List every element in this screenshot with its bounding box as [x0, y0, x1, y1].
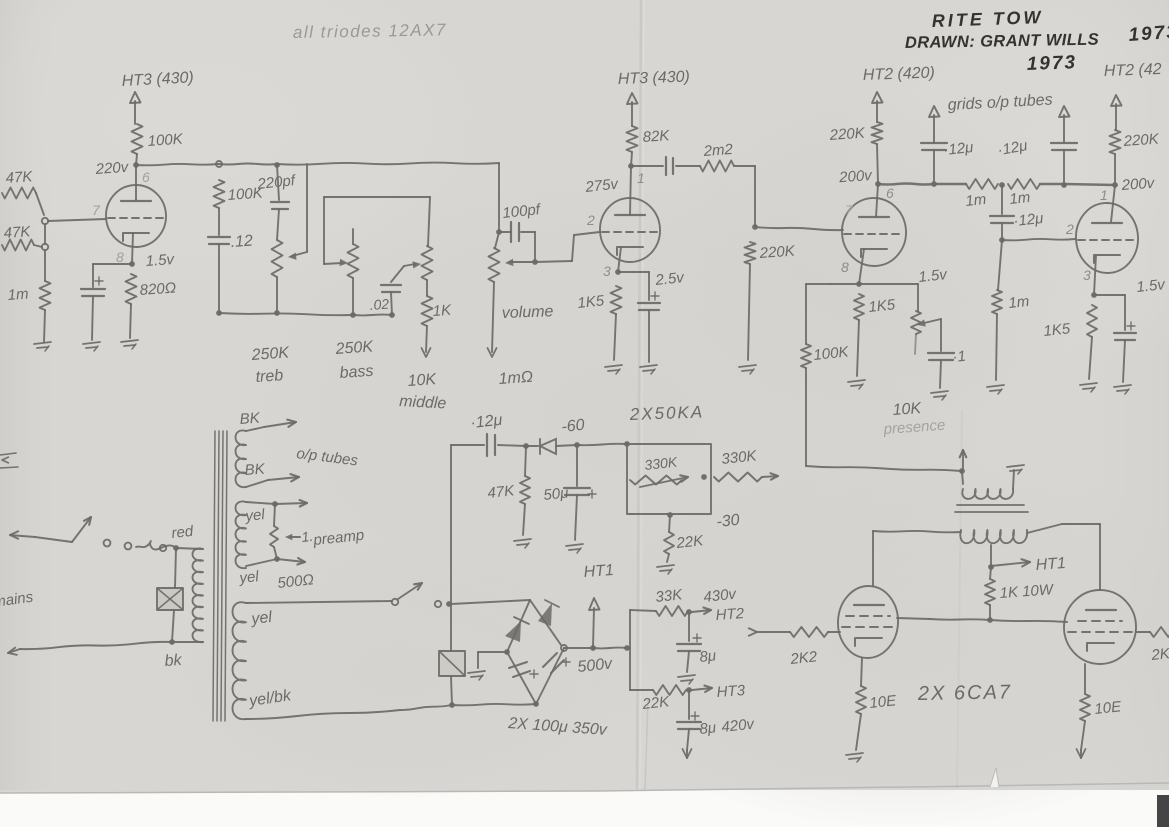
svg-text:100K: 100K — [147, 131, 184, 150]
svg-text:.02: .02 — [369, 296, 390, 313]
svg-text:HT1: HT1 — [1035, 555, 1066, 574]
svg-text:HT3: HT3 — [716, 682, 746, 701]
svg-text:·12μ: ·12μ — [1013, 210, 1045, 230]
svg-text:1K5: 1K5 — [1043, 320, 1072, 340]
svg-text:33K: 33K — [655, 586, 684, 606]
svg-text:BK: BK — [244, 461, 266, 479]
svg-text:430v: 430v — [703, 586, 739, 606]
svg-text:3: 3 — [603, 263, 611, 279]
svg-text:2K2: 2K2 — [789, 648, 819, 668]
svg-text:1m: 1m — [965, 191, 988, 210]
svg-text:3: 3 — [1083, 267, 1091, 283]
svg-text:8: 8 — [116, 249, 124, 265]
svg-text:220K: 220K — [758, 243, 796, 263]
svg-text:1K5: 1K5 — [868, 296, 897, 316]
svg-text:-30: -30 — [716, 512, 741, 531]
svg-text:220K: 220K — [1122, 131, 1160, 151]
svg-text:all triodes 12AX7: all triodes 12AX7 — [293, 20, 447, 42]
svg-text:1m: 1m — [7, 286, 29, 304]
svg-text:22K: 22K — [641, 693, 671, 713]
svg-text:·12μ: ·12μ — [470, 412, 504, 432]
svg-text:bk: bk — [164, 652, 183, 670]
svg-text:10E: 10E — [869, 692, 898, 712]
svg-text:1m: 1m — [1008, 293, 1031, 312]
svg-text:10E: 10E — [1094, 698, 1123, 718]
svg-text:2.5v: 2.5v — [654, 269, 686, 289]
svg-text:2X 6CA7: 2X 6CA7 — [917, 681, 1012, 705]
svg-text:1: 1 — [637, 170, 645, 186]
svg-text:47K: 47K — [5, 168, 34, 187]
svg-text:2K: 2K — [1150, 645, 1169, 664]
svg-text:HT2 (42: HT2 (42 — [1104, 61, 1162, 80]
svg-text:HT2 (420): HT2 (420) — [863, 64, 936, 84]
svg-text:-60: -60 — [561, 417, 586, 436]
svg-text:7: 7 — [92, 202, 101, 218]
svg-text:1973: 1973 — [1128, 22, 1169, 46]
svg-text:bass: bass — [339, 363, 374, 382]
svg-text:HT3 (430): HT3 (430) — [618, 68, 691, 88]
svg-text:47K: 47K — [3, 223, 32, 242]
svg-text:1mΩ: 1mΩ — [498, 369, 534, 388]
svg-text:2: 2 — [586, 212, 595, 228]
svg-text:2m2: 2m2 — [702, 141, 734, 160]
svg-text:10K: 10K — [892, 400, 923, 419]
svg-text:47K: 47K — [487, 482, 516, 502]
svg-text:2: 2 — [1065, 221, 1074, 237]
svg-text:middle: middle — [399, 393, 447, 412]
svg-text:200v: 200v — [1120, 175, 1156, 194]
svg-text:.12: .12 — [230, 232, 253, 251]
svg-text:50μ: 50μ — [543, 484, 570, 504]
svg-text:DRAWN: GRANT WILLS: DRAWN: GRANT WILLS — [905, 31, 1099, 52]
svg-text:yel: yel — [238, 568, 261, 587]
svg-text:·1: ·1 — [952, 348, 967, 366]
svg-text:yel: yel — [250, 609, 274, 628]
svg-text:6: 6 — [886, 185, 894, 201]
svg-text:BK: BK — [239, 410, 261, 428]
svg-text:10K: 10K — [407, 371, 438, 390]
svg-text:1.5v: 1.5v — [918, 266, 949, 286]
svg-text:yel: yel — [244, 506, 267, 525]
svg-text:HT1: HT1 — [583, 562, 614, 581]
svg-text:volume: volume — [502, 303, 554, 322]
svg-text:1.5v: 1.5v — [1136, 276, 1167, 296]
svg-text:8μ: 8μ — [699, 647, 717, 666]
svg-text:1973: 1973 — [1026, 52, 1077, 75]
svg-text:6: 6 — [142, 169, 150, 185]
svg-text:red: red — [171, 523, 195, 542]
svg-text:1: 1 — [1100, 187, 1108, 203]
svg-text:820Ω: 820Ω — [139, 279, 177, 299]
svg-text:7: 7 — [845, 202, 854, 218]
svg-text:250K: 250K — [334, 338, 375, 358]
svg-text:1.: 1. — [301, 528, 314, 545]
svg-text:220K: 220K — [828, 125, 866, 145]
svg-text:RITE TOW: RITE TOW — [931, 7, 1043, 31]
svg-text:200v: 200v — [838, 167, 874, 186]
svg-text:8μ: 8μ — [699, 719, 717, 738]
svg-text:275v: 275v — [584, 176, 621, 197]
svg-text:220v: 220v — [94, 159, 130, 178]
svg-text:250K: 250K — [250, 344, 291, 364]
svg-text:82K: 82K — [642, 127, 671, 146]
svg-text:HT2: HT2 — [715, 605, 745, 624]
svg-text:1K: 1K — [432, 302, 452, 320]
svg-text:1K5: 1K5 — [577, 292, 606, 312]
svg-text:1m: 1m — [1009, 189, 1032, 208]
svg-text:1.5v: 1.5v — [145, 251, 176, 270]
svg-text:420v: 420v — [721, 716, 757, 736]
svg-text:·12μ: ·12μ — [943, 139, 975, 159]
svg-text:treb: treb — [255, 367, 284, 386]
svg-text:2X50KA: 2X50KA — [628, 402, 704, 424]
svg-text:22K: 22K — [675, 532, 705, 552]
svg-text:8: 8 — [841, 259, 849, 275]
